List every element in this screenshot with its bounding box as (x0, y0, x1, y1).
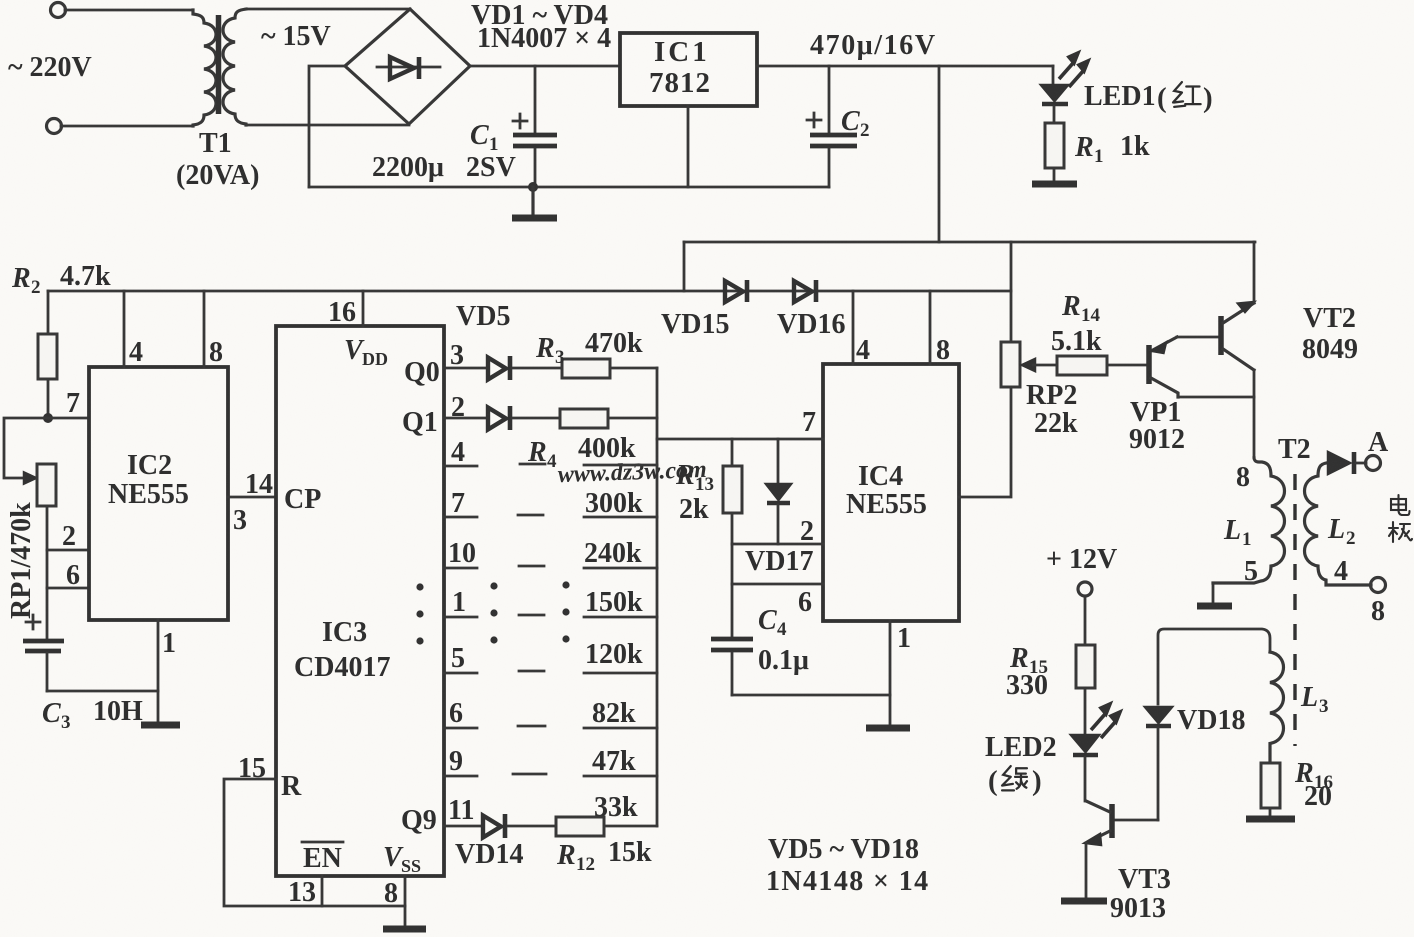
wire: resistor summing bus (656, 368, 659, 826)
wire: riser joining the two rails (683, 242, 686, 291)
wire: T1 secondary bottom to bridge bottom vertex (246, 124, 409, 127)
wire: upper distribution rail (684, 241, 1255, 244)
wire: VD18 to VT3 base node (1157, 728, 1160, 820)
diode VD16 (794, 281, 812, 302)
wire: ground rail under bridge (309, 186, 829, 189)
wire: VT2 emitter to +12V rail (1253, 242, 1256, 303)
wire: LED2 to VT3 collector (1084, 757, 1087, 801)
capacitor C2 stem lower (828, 149, 831, 187)
wire: wiper to R14 (1033, 364, 1057, 367)
pin row 9: bus link (584, 775, 657, 778)
pin row 6: bus link (584, 727, 657, 730)
transformer T2 winding L1 (1213, 458, 1285, 583)
LED1 light arrows (1059, 53, 1088, 87)
wire: IC2 pin3 to IC3 CP (228, 496, 276, 499)
diode VD18 (1145, 707, 1172, 723)
wire: IC4 pin 6 (732, 583, 823, 586)
wire: T1 secondary top to bridge top vertex (246, 8, 410, 11)
wire: pin2 node down to pin6 (731, 544, 734, 584)
label: C3 plus sign (26, 615, 40, 629)
resistor R12 (556, 817, 604, 836)
pin row 4: bus link (300k position uses row7) (584, 464, 657, 467)
wire: VP1 emitter to VT2 base (1177, 336, 1219, 339)
ground: below IC4 pin1 (866, 725, 910, 732)
wire: VP1 collector run (1178, 396, 1254, 399)
bridge rectifier internal diode (377, 66, 440, 69)
wire: pin 13 tick (321, 876, 324, 906)
ellipsis dots column right (562, 581, 569, 588)
resistor R13 stem lower (731, 513, 734, 544)
pin row 10: gap dash (519, 565, 544, 568)
wire: IC2 pin 1 to ground (157, 620, 160, 723)
wire: rail to RP2 (1010, 242, 1013, 342)
wire: IC3 pin 16 (VDD) (362, 291, 365, 326)
pin row 10: stub (444, 567, 477, 570)
capacitor C4 stem upper (731, 584, 734, 636)
ground: below R16 (1246, 816, 1295, 823)
wire: VT2 collector down to T2 (1253, 370, 1256, 458)
pin row 5: gap dash (519, 670, 544, 673)
wire: R12 to bus (604, 825, 657, 828)
LED2 symbol (1071, 735, 1099, 752)
transformer T2 core (dashed) (1293, 474, 1296, 746)
ground: L1 pin 5 (1197, 603, 1232, 610)
resistor R15 (1076, 645, 1095, 688)
pin row 1: bus link (584, 616, 657, 619)
wire: R3 to bus (610, 367, 657, 370)
ground: below R1 (1032, 181, 1077, 188)
terminal: A (1366, 456, 1381, 471)
transformer T1 core (216, 15, 222, 114)
LED1 symbol (1041, 85, 1068, 101)
wire: IC1 ground pin (687, 106, 690, 187)
transistor VT3 base bar (1109, 804, 1115, 838)
wire: IC4 pin 1 to ground (889, 621, 892, 726)
diode VD17 stem upper (777, 439, 780, 482)
resistor R2 (38, 334, 57, 379)
wire: VD5 to R3 (513, 367, 562, 370)
wire: IC2 pin 2 (47, 549, 89, 552)
transistor VP1 emitter (arrow into base) (1151, 337, 1177, 351)
wire: R2 supply rail (48, 290, 1011, 293)
pin row 5: bus link (584, 672, 657, 675)
glyph: lv (green) (1002, 766, 1027, 790)
transformer T2 winding L3 (1270, 652, 1284, 763)
wire: upper AC lead to T1 primary (65, 9, 193, 12)
terminal: AC input lower (47, 119, 62, 134)
paper texture overlay (0, 0, 1, 1)
potentiometer RP2 (1001, 342, 1020, 387)
glyph: hong (red) (1173, 82, 1201, 107)
diode VD17 (766, 484, 791, 500)
pin row 5: stub (444, 672, 477, 675)
wire: pin 8 VSS stem to ground (404, 876, 407, 927)
capacitor C1 plates (513, 133, 557, 138)
transistor VT3 emitter (arrow down-left) (1086, 831, 1110, 843)
diode VD5 (488, 358, 506, 380)
pin row 4: stub (444, 465, 477, 468)
wire: IC4 pin 2 (732, 543, 823, 546)
capacitor C3 plates (23, 639, 64, 644)
wire: R1 to ground (1053, 168, 1056, 182)
diode VD14 (483, 816, 501, 838)
wire: C3 to IC2 pin1 (47, 690, 158, 693)
transformer T1 secondary winding (223, 9, 246, 125)
resistor R2 stem lower (47, 379, 50, 418)
label: C2 plus sign (807, 113, 821, 127)
potentiometer RP1 (37, 464, 56, 506)
transformer T2 winding L2 (1305, 463, 1372, 585)
wire: IC2 pin 4 (123, 291, 126, 367)
capacitor C2 stem upper (828, 66, 831, 132)
diode VD17 stem lower (777, 505, 780, 544)
transistor VT2 base bar (1218, 316, 1224, 355)
resistor R2 stem upper (47, 291, 50, 334)
wire: C4 to IC4 pin1 (732, 694, 890, 697)
pin row 9: gap dash (513, 773, 546, 776)
terminal: output 8 (1371, 578, 1386, 593)
wire: diode to terminal A (1356, 462, 1366, 465)
diode VD15 (725, 281, 743, 302)
pin row 6: stub (444, 727, 477, 730)
wire: +12V to R15 (1084, 596, 1087, 645)
wire: R4 to bus (608, 417, 657, 420)
ground: below IC3 pin 8 (383, 926, 426, 933)
wire: Q9 to VD14 (444, 825, 481, 828)
capacitor C4 plates (711, 637, 753, 642)
op IC4 NE555 box (823, 364, 959, 621)
wire: bridge left vertex loop (309, 66, 345, 187)
transistor VP1 base bar (1146, 345, 1152, 384)
wire: feedback loop top (1158, 629, 1270, 704)
wire: IC4 pin 3 output (959, 387, 1011, 497)
pin row 7: bus link (584, 516, 657, 519)
pin row 10: bus link (584, 567, 657, 570)
diode at output A (1328, 452, 1350, 474)
terminal: +12V (1078, 582, 1092, 596)
terminal: AC input upper (51, 3, 66, 18)
wire: L1 pin5 to ground (1212, 583, 1215, 603)
node: C1 ground junction (528, 182, 538, 192)
op IC2 NE555 box (89, 367, 228, 620)
wire: R16 to ground (1269, 808, 1272, 817)
ground: below IC2 pin1 (141, 722, 180, 729)
op IC1 7812 regulator box (620, 33, 757, 106)
pin row 6: gap dash (518, 725, 545, 728)
wire: IC2 pin 6 (47, 587, 89, 590)
wire: riser from +12V rail down to lower rail (938, 66, 941, 242)
resistor R13 (723, 466, 742, 513)
pin row 9: stub (444, 775, 477, 778)
LED1 stem from rail (1052, 66, 1055, 84)
wire: LED1 to R1 (1053, 106, 1056, 123)
wire: IC4 pin 8 (929, 291, 932, 364)
wire: VD14 to R12 (508, 825, 556, 828)
capacitor C3 stem lower (46, 653, 49, 691)
transistor VP1 collector (1151, 378, 1178, 397)
wire: VT3 emitter to ground (1085, 843, 1088, 899)
capacitor C1 stem upper (534, 66, 537, 132)
op IC3 CD4017 box (276, 326, 444, 876)
wire: VD6 to R4 (513, 417, 560, 420)
pin row 1: stub (444, 616, 477, 619)
transistor VT2 collector (1223, 349, 1254, 370)
resistor R1 (1045, 123, 1064, 168)
ellipsis dots column middle (490, 582, 497, 589)
capacitor C4 stem lower (731, 653, 734, 695)
wire: VT3 base wire (1114, 819, 1158, 822)
wire: junction to IC2 pin 7 (48, 417, 89, 420)
wire: R14 to VP1 base (1107, 364, 1147, 367)
resistor R14 (1057, 356, 1107, 375)
LED2 light arrows (1091, 704, 1120, 738)
label: C1 plus sign (513, 114, 527, 128)
transistor VT3 collector (1086, 801, 1110, 812)
node: R2 / RP1 / pin7 junction (43, 413, 53, 423)
resistor R13 stem upper (731, 439, 734, 466)
wire: lower AC lead to T1 primary (61, 125, 193, 128)
wire: Q0 to VD5 (444, 367, 486, 370)
pin row 7: gap dash (518, 514, 543, 517)
transformer T1 primary winding (193, 10, 216, 126)
RP1 wiper arrowhead (24, 473, 36, 484)
ellipsis dots column inside IC3 (416, 581, 569, 644)
transistor VT2 emitter (arrow up-right) (1223, 303, 1254, 323)
wire: IC4 pin 4 (852, 291, 855, 364)
glyph: ji (electrode char 2) (1389, 522, 1412, 542)
ground: below VT3 (1061, 898, 1107, 905)
pin row 7: stub (444, 516, 477, 519)
capacitor C2 plates (810, 133, 857, 138)
wire: IC3 pin 15 (R) loop (224, 779, 405, 906)
resistor R3 (562, 359, 610, 378)
wire: Q1 to VD6 (444, 417, 486, 420)
wire: R15 to LED2 (1084, 688, 1087, 734)
wire: bus to IC4 pin 7 (657, 438, 823, 441)
RP2 wiper arrowhead (1022, 359, 1035, 371)
resistor R4 (560, 409, 608, 428)
wire: RP1 wiper loop (4, 418, 48, 478)
pin row 1: gap dash (519, 614, 544, 617)
glyph: dian (electrode char 1) (1391, 495, 1410, 515)
pin row 4: gap dash (520, 463, 545, 466)
capacitor C1 stem lower (534, 149, 537, 187)
resistor R16 (1261, 763, 1280, 808)
ground: below C1 (531, 187, 534, 216)
bridge rectifier VD1~VD4 diamond (345, 9, 470, 124)
diode VD6 (488, 408, 506, 430)
wire: IC2 pin 8 (203, 291, 206, 367)
wire: bridge right vertex to IC1 input (470, 65, 620, 68)
wire: +12V output rail (757, 65, 1053, 68)
wire: RP1 to C3 vertical (46, 506, 49, 639)
